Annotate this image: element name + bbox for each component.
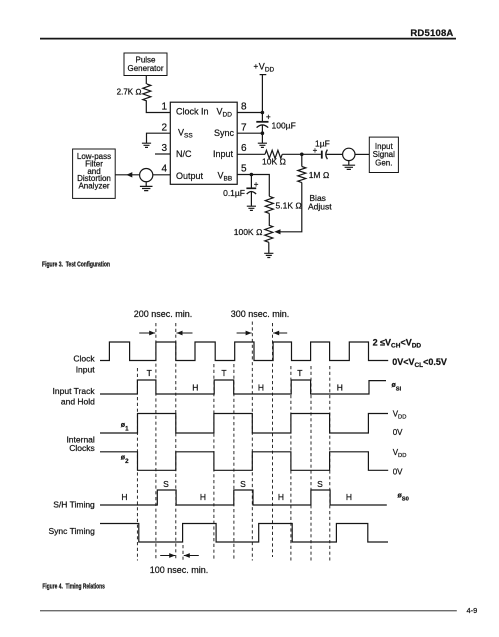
svg-text:Clock In: Clock In [176,107,209,117]
pulse generator box [124,53,167,76]
svg-text:8: 8 [241,102,247,113]
resistor R4 5.1K [265,196,302,213]
svg-text:1: 1 [161,102,167,113]
wire signal generator to box [355,153,369,155]
svg-text:4: 4 [161,164,167,175]
ground at pin 2 [142,143,151,147]
waveform phi 2 [100,452,388,471]
op-amp U1 RD5108A IC box [170,102,237,184]
svg-text:5.1K Ω: 5.1K Ω [276,201,303,211]
potentiometer R5 100K [234,225,281,242]
svg-text:VSS: VSS [178,128,193,140]
svg-text:S: S [240,479,246,489]
svg-text:Input: Input [213,149,234,159]
svg-text:Analyzer: Analyzer [78,182,109,191]
svg-text:VDD: VDD [393,410,407,421]
svg-text:Input: Input [76,364,96,374]
svg-text:Sync Timing: Sync Timing [49,526,96,536]
svg-text:Gen.: Gen. [375,159,392,168]
svg-text:Figure 3. Test Configuration: Figure 3. Test Configuration [42,259,110,268]
junction pin 7 [261,131,265,135]
svg-text:+: + [266,113,271,122]
wire R1 to pin 1 [146,101,170,113]
wire pin 3 N/C stub [155,153,170,155]
wire pin 2 to ground [147,133,171,143]
waveform sync timing [100,524,388,543]
node +VDD [254,62,275,75]
svg-text:4-9: 4-9 [467,606,478,615]
svg-text:N/C: N/C [176,149,192,159]
svg-text:2 ≤VCH<VDD: 2 ≤VCH<VDD [373,338,422,350]
dashed line clock rise 5 [272,323,274,557]
probe circle at output [140,169,153,182]
svg-text:T: T [297,368,302,378]
wire R3 to wiper [280,183,302,232]
waveform phi 1 [100,414,388,434]
wire potentiometer to ground [268,242,270,253]
svg-text:øSI: øSI [392,382,402,392]
svg-text:S/H Timing: S/H Timing [53,499,95,509]
svg-text:200 nsec. min.: 200 nsec. min. [134,309,193,319]
ground at output probe [145,182,147,187]
arrow 100 nsec left [160,555,175,557]
wire pin 7 [237,132,262,134]
label clock input [73,353,95,374]
arrow 100 nsec right [184,555,199,557]
footer rule [40,610,457,612]
label input track and hold [53,386,96,407]
svg-text:H: H [121,492,127,502]
low-pass filter and distortion analyzer box [73,149,116,198]
svg-text:H: H [337,383,343,393]
svg-text:2: 2 [161,123,167,134]
resistor R3 1M [298,154,330,182]
svg-text:100K Ω: 100K Ω [234,227,263,237]
wire pin 8 [237,112,262,114]
dashed line t3 rise [290,366,292,561]
wire probe to analyzer with arrow [115,174,139,176]
svg-text:+: + [313,146,318,155]
label bias adjust [308,193,332,212]
dashed line clock rise 4 [233,364,235,561]
wire junction to ground [261,133,263,143]
svg-text:Clocks: Clocks [69,443,95,453]
svg-text:Figure 4. Timing Relations: Figure 4. Timing Relations [42,582,105,591]
svg-text:H: H [258,383,264,393]
svg-text:Adjust: Adjust [308,202,332,212]
capacitor C3 0.1uF [223,175,259,207]
svg-text:Output: Output [176,171,204,181]
dashed line clock fall 6 [329,366,331,561]
svg-text:and Hold: and Hold [61,396,95,406]
ground below 100uF [258,143,267,147]
arrow 300 nsec right [273,332,287,334]
svg-text:VBB: VBB [218,170,233,182]
svg-text:ø2: ø2 [121,454,129,464]
junction node input bias [300,153,304,157]
waveform input track and hold [100,380,386,394]
ground at signal generator [348,161,350,165]
arrow 200 nsec left [139,332,155,334]
waveform clock input [100,342,388,361]
svg-text:2.7K Ω: 2.7K Ω [117,88,142,97]
label internal clocks [66,435,94,454]
dashed line clock rise 6 [310,366,312,561]
waveform S/H timing [100,490,387,505]
svg-text:T: T [221,368,226,378]
wire R2 to capacitor C2 [282,153,321,155]
svg-text:0V: 0V [393,428,403,437]
junction pin 8 / VDD [261,111,265,115]
svg-text:100µF: 100µF [272,121,296,131]
wire pin 6 to resistor R2 [237,153,265,155]
wire +VDD down to pin 8 junction [261,75,263,122]
junction pin 5 [250,173,254,177]
resistor R2 10K [262,150,286,166]
svg-text:Generator: Generator [127,64,163,73]
dashed line t2 rise [213,364,215,561]
svg-text:T: T [147,368,152,378]
svg-text:H: H [346,492,352,502]
capacitor C2 1uF [313,138,330,159]
svg-text:H: H [192,383,198,393]
resistor R1 2.7K [117,84,151,101]
svg-text:Sync: Sync [214,128,235,138]
svg-text:H: H [278,492,284,502]
wire pin 4 to probe [153,174,170,176]
svg-text:1M Ω: 1M Ω [309,170,330,180]
svg-text:+: + [254,62,259,71]
svg-text:S: S [163,479,169,489]
dashed line clock fall 4 [251,322,253,561]
wire R4 to potentiometer [268,213,270,225]
svg-text:VDD: VDD [217,107,233,119]
svg-text:VDD: VDD [393,448,407,459]
wire pin 5 [237,175,269,197]
ground below C3 [247,206,256,210]
dashed line clock fall 2 [175,323,177,561]
dashed line sync rise delay [182,545,184,561]
svg-text:0V<VCL<0.5V: 0V<VCL<0.5V [392,357,447,369]
signal generator circle [343,148,355,160]
svg-text:3: 3 [161,143,167,154]
header rule [40,38,456,40]
svg-text:0V: 0V [393,467,403,476]
svg-text:300 nsec. min.: 300 nsec. min. [231,309,290,319]
svg-text:RD5108A: RD5108A [410,28,453,39]
dashed line clock rise 2 [155,323,157,561]
dashed line t1 rise [136,368,138,561]
svg-text:ø1: ø1 [121,422,129,432]
svg-text:6: 6 [241,143,247,154]
svg-text:7: 7 [241,123,247,134]
input signal gen box [369,137,398,172]
wire pulse generator to resistor R1 [145,76,147,85]
svg-text:S: S [317,479,323,489]
arrow 300 nsec left [237,332,252,334]
svg-text:øS0: øS0 [398,492,409,502]
svg-text:10K Ω: 10K Ω [262,157,286,167]
svg-text:0.1µF: 0.1µF [223,188,245,198]
svg-text:5: 5 [241,164,247,175]
ground below potentiometer [264,253,273,257]
capacitor C1 100uF [256,113,295,134]
svg-text:Input Track: Input Track [53,386,96,396]
wire C2 to signal generator [327,153,343,155]
svg-text:H: H [200,492,206,502]
svg-text:100 nsec. min.: 100 nsec. min. [150,565,209,575]
svg-text:Clock: Clock [73,353,95,363]
svg-text:VDD: VDD [259,62,275,74]
arrow 200 nsec right [177,332,193,334]
